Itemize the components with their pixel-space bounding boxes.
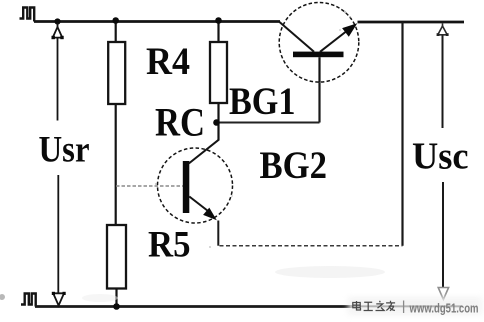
svg-text:Usr: Usr <box>39 129 90 170</box>
svg-text:BG1: BG1 <box>229 80 296 123</box>
svg-text:www.dg51.com: www.dg51.com <box>409 302 479 316</box>
svg-text:R5: R5 <box>148 225 191 266</box>
svg-text:R4: R4 <box>146 40 190 83</box>
svg-text:Usc: Usc <box>412 136 469 178</box>
svg-text:RC: RC <box>155 100 205 145</box>
svg-text:BG2: BG2 <box>260 144 328 187</box>
